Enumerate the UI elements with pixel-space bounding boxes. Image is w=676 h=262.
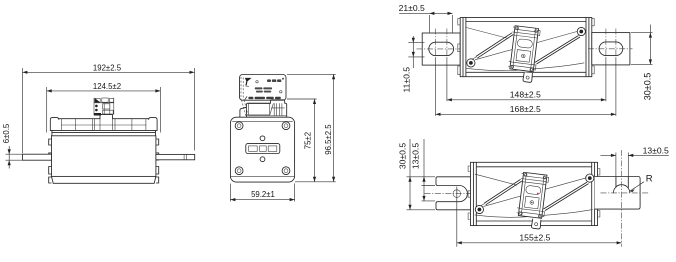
dimension 13±0.5 (notch) [601, 145, 670, 187]
center slot [246, 144, 280, 154]
blade terminal right [156, 154, 195, 159]
body inner top/bottom lines [476, 167, 591, 221]
blade right marks [184, 154, 186, 159]
dimension 148±2.5 [447, 58, 606, 101]
indicator red dot [537, 193, 539, 195]
cap tabs right [598, 169, 600, 218]
fuse body (top view 2) [471, 162, 598, 225]
strap upper-right (double) [535, 36, 580, 65]
neck between cap and body [52, 130, 156, 135]
slot inner rects [249, 146, 258, 152]
notch slot sides [616, 177, 628, 188]
dimension 13±0.5 (fork prong) [411, 139, 435, 201]
dimension 124.5±2 [47, 82, 161, 132]
dimension 75±2 [287, 99, 317, 182]
svg-text:75±2: 75±2 [304, 132, 313, 149]
blade right (top view) [592, 33, 630, 65]
svg-text:124.5±2: 124.5±2 [93, 82, 121, 91]
obround hole left [429, 42, 454, 55]
left side tabs [49, 139, 52, 183]
strap lower-left (double) [476, 33, 514, 58]
svg-text:11±0.5: 11±0.5 [402, 67, 412, 93]
cap tabs left [458, 19, 460, 75]
dimension 168±2.5 [436, 58, 616, 116]
svg-text:59.2±1: 59.2±1 [251, 190, 275, 199]
dimension 21±0.5 [399, 3, 453, 33]
obround hole right [599, 42, 623, 56]
screw bottom-left [235, 167, 243, 175]
svg-text:13±0.5: 13±0.5 [643, 145, 669, 155]
striker tab below body [523, 72, 533, 83]
internal mechanism (reused) [475, 172, 594, 229]
long thin diagonals [466, 28, 580, 63]
end cap lines [463, 18, 589, 77]
centerlines left blade [417, 29, 462, 59]
label rating line 1 (smudge) [255, 87, 272, 89]
dimension 192±2.5 [22, 63, 194, 153]
svg-text:30±0.5: 30±0.5 [642, 73, 652, 100]
svg-text:21±0.5: 21±0.5 [399, 3, 425, 13]
dimension 59.2±1 [230, 184, 294, 202]
blade centerline horizontal [601, 192, 650, 194]
fork centerline [425, 193, 472, 195]
label hidden edges (dashed) [241, 77, 248, 116]
body bottom band [52, 176, 156, 183]
body inner bottom line [231, 175, 295, 177]
label bottom text (smudge) [244, 96, 280, 99]
fork contact circle [453, 190, 461, 198]
indicator cluster on top [94, 98, 114, 116]
cap inner line [61, 124, 146, 126]
notch arc R (dome) [613, 185, 629, 193]
notched blade right [595, 177, 641, 210]
fuse body (top view) [460, 18, 592, 77]
screw left-bottom [467, 59, 475, 67]
screw bottom-right [282, 167, 290, 175]
fuse body (side view) [52, 136, 156, 177]
cap hump details [270, 103, 285, 116]
cap inner window [249, 104, 270, 115]
cap left ear [240, 107, 247, 117]
cap bottom line [246, 115, 286, 117]
screw top-right [282, 122, 290, 130]
indicator circle lower [260, 157, 265, 162]
screw right-top [577, 27, 585, 35]
fork blade left [436, 177, 471, 210]
cap under label [246, 100, 286, 117]
dimension 155±2.5 [457, 187, 622, 247]
dimension 6±0.5 [2, 123, 23, 168]
label plate [240, 75, 287, 101]
label rating line 2 (smudge) [256, 91, 271, 93]
blade terminal left [23, 154, 52, 160]
cap division lines [62, 119, 146, 131]
notch centerline vertical [621, 150, 623, 247]
right side tabs [156, 139, 159, 183]
dimension 30±0.5 (right blade) [631, 25, 653, 101]
bottom wavy strap line [466, 63, 584, 71]
svg-text:30±0.5: 30±0.5 [397, 143, 407, 169]
svg-text:R: R [646, 173, 653, 184]
svg-text:155±2.5: 155±2.5 [519, 232, 550, 242]
label small circle left [256, 81, 258, 83]
radius R leader [630, 173, 653, 192]
dimension 11±0.5 [402, 36, 425, 92]
centerlines right blade [588, 29, 633, 59]
dimension 30±0.5 (fork) [397, 139, 435, 210]
fork crosshair tick [456, 188, 458, 199]
cap tabs left [468, 166, 470, 220]
svg-text:6±0.5: 6±0.5 [2, 123, 11, 143]
svg-text:168±2.5: 168±2.5 [510, 104, 541, 114]
svg-text:148±2.5: 148±2.5 [510, 89, 541, 99]
label brand text (smudge) [267, 78, 284, 82]
dimension 96.5±2.5 [287, 74, 336, 182]
label small circle right [280, 91, 282, 93]
body inner top line [232, 120, 293, 122]
label logo [245, 78, 252, 86]
svg-text:192±2.5: 192±2.5 [93, 63, 122, 72]
indicator circle upper [260, 136, 265, 141]
internal mechanism [466, 25, 585, 82]
svg-text:96.5±2.5: 96.5±2.5 [324, 124, 333, 155]
square body front [230, 117, 294, 182]
end cap lines [473, 162, 594, 225]
cap tabs right [592, 19, 594, 74]
body inner top/bottom lines [466, 22, 586, 73]
screw top-left [235, 122, 243, 130]
top cap strip [50, 115, 157, 131]
indicator block (tilted) [508, 25, 541, 72]
blade left (top view) [422, 33, 460, 65]
svg-text:13±0.5: 13±0.5 [411, 143, 421, 169]
